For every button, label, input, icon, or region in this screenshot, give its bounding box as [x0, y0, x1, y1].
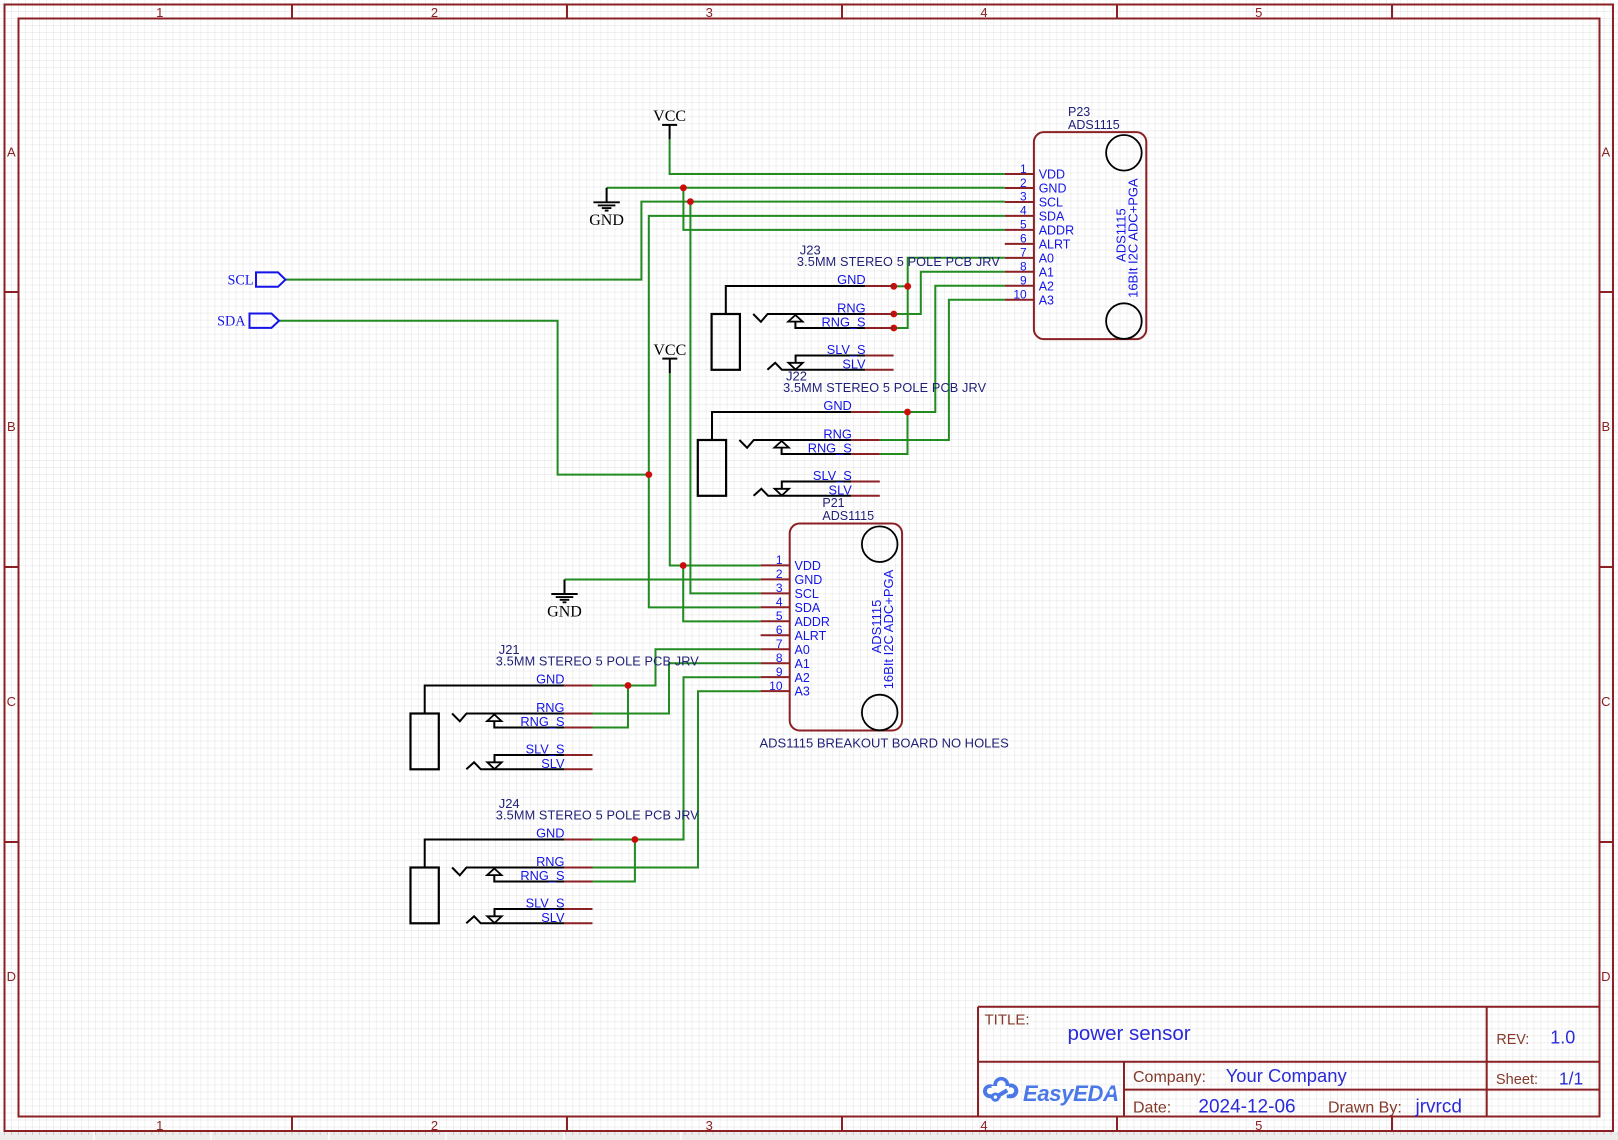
svg-text:ADS1115 BREAKOUT BOARD NO HOLE: ADS1115 BREAKOUT BOARD NO HOLES: [760, 735, 1010, 750]
svg-text:ADDR: ADDR: [795, 615, 830, 629]
power flag VCC (middle): [653, 342, 686, 373]
svg-text:A2: A2: [795, 671, 810, 685]
svg-text:2: 2: [431, 5, 438, 20]
svg-text:D: D: [1601, 969, 1610, 984]
junction (648.8,474.6): [645, 471, 652, 478]
svg-text:RNG: RNG: [823, 427, 851, 442]
junction (893.8,314): [890, 311, 897, 318]
ground symbol GND (lower): [547, 580, 582, 621]
svg-text:SLV: SLV: [541, 910, 565, 925]
bottom scrollbar: [0, 1132, 1618, 1140]
svg-text:B: B: [1601, 419, 1610, 434]
wire P23 pin9 A2 to J22 GND: [880, 286, 1005, 412]
svg-text:3: 3: [706, 1118, 713, 1133]
svg-text:GND: GND: [536, 672, 564, 687]
connector J23 3.5mm stereo jack symbol: [712, 286, 894, 370]
EasyEDA logo: [983, 1077, 1119, 1106]
svg-text:SCL: SCL: [795, 587, 819, 601]
svg-text:SLV_S: SLV_S: [526, 742, 565, 757]
wire J21 GND branch to J21 RNG_S: [592, 686, 628, 728]
wire P23 pin7 A0 to J23 GND/RNG_S: [894, 258, 1005, 328]
svg-text:5: 5: [1020, 218, 1027, 232]
svg-text:4: 4: [776, 595, 783, 609]
wire P23 pin8 A1 to J23 RNG: [894, 272, 1005, 314]
svg-text:Drawn By:: Drawn By:: [1328, 1100, 1402, 1117]
svg-text:1: 1: [156, 5, 163, 20]
svg-text:Your Company: Your Company: [1226, 1065, 1348, 1086]
junction (893.8,286.3): [890, 283, 897, 290]
connector J22 3.5mm stereo jack symbol: [698, 412, 880, 496]
ground symbol GND (top): [589, 188, 624, 229]
svg-text:SLV: SLV: [829, 482, 853, 497]
P21 pin 8 A1: [761, 651, 810, 671]
svg-text:6: 6: [1020, 232, 1027, 246]
connector J21 3.5mm stereo jack symbol: [411, 686, 593, 770]
P23 pin 8 A1: [1005, 260, 1054, 280]
svg-text:A0: A0: [1039, 251, 1054, 265]
P23 pin 1 VDD: [1005, 162, 1065, 182]
svg-text:9: 9: [776, 665, 783, 679]
svg-text:ALRT: ALRT: [1039, 237, 1071, 251]
svg-text:A1: A1: [1039, 265, 1054, 279]
P23 pin 7 A0: [1005, 246, 1054, 266]
svg-text:GND: GND: [536, 826, 564, 841]
svg-text:jrvrcd: jrvrcd: [1415, 1097, 1462, 1118]
svg-text:A3: A3: [1039, 293, 1054, 307]
svg-text:GND: GND: [795, 573, 823, 587]
junction (683.2,565.5): [680, 562, 687, 569]
junction (628,685.5): [625, 682, 632, 689]
wire GND1 to P23 pin2 GND: [607, 187, 1005, 189]
svg-text:3.5MM STEREO 5 POLE PCB JRV: 3.5MM STEREO 5 POLE PCB JRV: [496, 809, 699, 823]
svg-text:9: 9: [1020, 274, 1027, 288]
svg-text:3.5MM STEREO 5 POLE PCB JRV: 3.5MM STEREO 5 POLE PCB JRV: [496, 655, 699, 669]
svg-text:C: C: [7, 694, 16, 709]
wire J23 GND pin to A0 vertical: [894, 285, 908, 287]
svg-text:4: 4: [1020, 204, 1027, 218]
svg-text:VDD: VDD: [795, 559, 821, 573]
power flag VCC (top): [653, 108, 686, 139]
svg-text:SLV_S: SLV_S: [827, 342, 866, 357]
junction (690.4,201.6): [687, 198, 694, 205]
svg-text:D: D: [7, 969, 16, 984]
svg-text:A: A: [7, 145, 16, 160]
svg-text:3.5MM STEREO 5 POLE PCB JRV: 3.5MM STEREO 5 POLE PCB JRV: [783, 381, 986, 395]
P21 pin 6 ALRT: [761, 623, 827, 643]
svg-text:10: 10: [1013, 288, 1027, 302]
svg-text:ALRT: ALRT: [795, 629, 827, 643]
svg-text:4: 4: [980, 5, 987, 20]
svg-text:SLV_S: SLV_S: [526, 896, 565, 911]
svg-text:3: 3: [776, 581, 783, 595]
wire SDA port to SDA vertical: [279, 321, 649, 475]
svg-text:A1: A1: [795, 657, 810, 671]
svg-text:GND: GND: [589, 212, 624, 229]
net port SCL: [227, 272, 285, 288]
P23 pin 2 GND: [1005, 176, 1067, 196]
junction (907.7,286.3): [904, 283, 911, 290]
svg-text:GND: GND: [823, 398, 851, 413]
wire VDD branch to P21 pin5 ADDR: [683, 566, 760, 622]
svg-text:Company:: Company:: [1133, 1069, 1206, 1086]
junction (634.9,839.5): [632, 836, 639, 843]
svg-text:SCL: SCL: [1039, 196, 1063, 210]
svg-text:16BIt I2C ADC+PGA: 16BIt I2C ADC+PGA: [1125, 178, 1140, 298]
svg-text:16BIt I2C ADC+PGA: 16BIt I2C ADC+PGA: [881, 569, 896, 689]
P21 pin 4 SDA: [761, 595, 821, 615]
svg-text:SLV_S: SLV_S: [813, 468, 852, 483]
svg-text:Sheet:: Sheet:: [1496, 1072, 1538, 1088]
net port SDA: [217, 313, 279, 329]
svg-text:ADDR: ADDR: [1039, 223, 1074, 237]
svg-text:7: 7: [776, 637, 783, 651]
svg-text:VCC: VCC: [653, 342, 686, 359]
svg-text:6: 6: [776, 623, 783, 637]
wire P21 pin9 A2 to J24 GND: [592, 677, 760, 839]
svg-text:SDA: SDA: [1039, 210, 1065, 224]
svg-text:RNG_S: RNG_S: [822, 315, 866, 330]
wire VCC1 to P23 pin1 VDD: [670, 139, 1005, 174]
svg-text:7: 7: [1020, 246, 1027, 260]
svg-text:1.0: 1.0: [1550, 1028, 1575, 1048]
wire GND2 to P21 pin2 GND: [565, 579, 761, 581]
svg-text:VCC: VCC: [653, 108, 686, 125]
svg-text:2: 2: [431, 1118, 438, 1133]
P23 pin 4 SDA: [1005, 204, 1065, 224]
svg-text:1: 1: [776, 553, 783, 567]
svg-text:10: 10: [769, 679, 783, 693]
svg-text:8: 8: [776, 651, 783, 665]
svg-text:5: 5: [1255, 5, 1262, 20]
svg-text:ADS1115: ADS1115: [1068, 118, 1120, 132]
svg-text:5: 5: [1255, 1118, 1262, 1133]
svg-text:3: 3: [1020, 190, 1027, 204]
svg-text:8: 8: [1020, 260, 1027, 274]
svg-text:RNG: RNG: [837, 301, 865, 316]
wire P21 pin8 A1 to J21 RNG: [592, 663, 760, 713]
svg-text:SDA: SDA: [217, 313, 246, 329]
svg-text:2: 2: [1020, 176, 1027, 190]
svg-text:GND: GND: [547, 604, 582, 621]
svg-text:P21: P21: [822, 496, 844, 510]
svg-text:GND: GND: [1039, 182, 1067, 196]
svg-text:RNG: RNG: [536, 854, 564, 869]
P23 pin 9 A2: [1005, 274, 1054, 294]
svg-text:RNG_S: RNG_S: [520, 714, 564, 729]
svg-text:1/1: 1/1: [1559, 1068, 1583, 1088]
svg-text:SLV: SLV: [541, 756, 565, 771]
P23 pin 6 ALRT: [1005, 232, 1071, 252]
svg-text:ADS1115: ADS1115: [822, 509, 874, 523]
P21 pin 2 GND: [761, 567, 823, 587]
wire P21 pin10 A3 to J24 RNG: [592, 691, 760, 867]
svg-text:A0: A0: [795, 643, 810, 657]
svg-text:SDA: SDA: [795, 601, 821, 615]
svg-text:EasyEDA: EasyEDA: [1023, 1081, 1119, 1106]
svg-text:1: 1: [156, 1118, 163, 1133]
svg-text:A2: A2: [1039, 279, 1054, 293]
svg-text:A3: A3: [795, 685, 810, 699]
P23 pin 3 SCL: [1005, 190, 1063, 210]
wire J22 GND branch to J22 RNG_S: [880, 412, 908, 454]
svg-text:1: 1: [1020, 162, 1027, 176]
wire SCL port to P23 pin3 SCL: [286, 202, 1005, 280]
svg-text:Date:: Date:: [1133, 1100, 1171, 1117]
svg-text:A: A: [1601, 145, 1610, 160]
wire VCC2 to P21 pin1 VDD: [670, 373, 761, 566]
connector J24 3.5mm stereo jack symbol: [411, 840, 593, 924]
svg-text:TITLE:: TITLE:: [985, 1012, 1030, 1029]
junction (893.8,328): [890, 325, 897, 332]
svg-text:3.5MM STEREO 5 POLE PCB JRV: 3.5MM STEREO 5 POLE PCB JRV: [797, 255, 1000, 269]
junction (907.5,412): [904, 409, 911, 416]
svg-text:2024-12-06: 2024-12-06: [1198, 1097, 1295, 1118]
svg-text:2: 2: [776, 567, 783, 581]
wire SDA vertical P23 pin4 to P21 pin4: [649, 216, 1005, 608]
svg-text:VDD: VDD: [1039, 168, 1065, 182]
junction (683.4,187.8): [680, 184, 687, 191]
svg-text:REV:: REV:: [1496, 1032, 1529, 1048]
svg-text:3: 3: [706, 5, 713, 20]
svg-text:RNG_S: RNG_S: [520, 868, 564, 883]
svg-text:5: 5: [776, 609, 783, 623]
P23 pin 10 A3: [1005, 288, 1054, 308]
svg-text:SCL: SCL: [227, 272, 253, 288]
P23 pin 5 ADDR: [1005, 218, 1074, 238]
P21 pin 3 SCL: [761, 581, 819, 601]
svg-text:C: C: [1601, 694, 1610, 709]
svg-text:power sensor: power sensor: [1068, 1022, 1191, 1045]
title block frame: [978, 1007, 1600, 1117]
wire J24 GND branch to J24 RNG_S: [592, 840, 635, 882]
svg-text:P23: P23: [1068, 105, 1090, 119]
P21 pin 1 VDD: [761, 553, 821, 573]
P21 pin 10 A3: [761, 679, 810, 699]
P21 pin 5 ADDR: [761, 609, 830, 629]
svg-text:GND: GND: [837, 272, 865, 287]
svg-text:RNG_S: RNG_S: [808, 441, 852, 456]
svg-text:4: 4: [980, 1118, 987, 1133]
svg-text:RNG: RNG: [536, 700, 564, 715]
wire SCL branch to P21 pin3 SCL: [690, 202, 760, 594]
P21 pin 7 A0: [761, 637, 810, 657]
svg-text:B: B: [7, 419, 16, 434]
svg-text:SLV: SLV: [842, 356, 866, 371]
wire P21 pin7 A0 to J21 GND: [592, 649, 760, 685]
P21 pin 9 A2: [761, 665, 810, 685]
wire GND branch to P23 pin5 ADDR: [683, 188, 1004, 230]
IC P21 ADS1115 body: [790, 524, 902, 731]
IC P23 ADS1115 body: [1034, 132, 1146, 339]
wire P23 pin10 A3 to J22 RNG: [880, 300, 1005, 440]
